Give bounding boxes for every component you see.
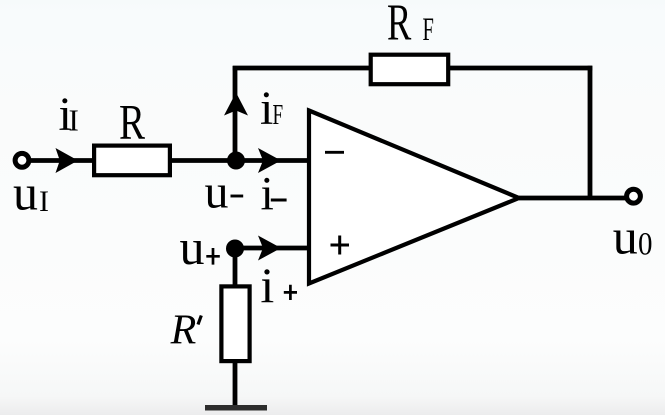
wire output xyxy=(519,196,627,201)
wire u+ to R' xyxy=(233,248,238,287)
current arrow i- xyxy=(258,148,281,173)
svg-text:I: I xyxy=(69,103,79,138)
op-amp plus sign xyxy=(331,236,350,255)
current arrow iI xyxy=(56,148,79,173)
wire feedback top-left xyxy=(233,66,369,71)
op-amp minus sign xyxy=(325,151,344,154)
svg-text:F: F xyxy=(273,99,284,131)
input terminal xyxy=(15,153,29,167)
wire plus input xyxy=(235,246,307,251)
wire R' to ground xyxy=(233,362,238,407)
output terminal xyxy=(627,189,641,203)
svg-text:i: i xyxy=(261,168,274,221)
svg-text:I: I xyxy=(39,185,49,218)
resistor R xyxy=(94,146,170,176)
ground xyxy=(205,405,267,411)
current arrow i+ xyxy=(258,236,281,261)
label R xyxy=(119,94,145,150)
resistor RF xyxy=(371,55,449,84)
svg-text:R: R xyxy=(170,308,197,354)
current arrow iF xyxy=(224,93,248,116)
wire output drop xyxy=(588,66,593,198)
svg-text:u: u xyxy=(180,219,205,275)
wire input xyxy=(30,158,94,163)
wire feedback top-right xyxy=(450,66,592,71)
resistor R' xyxy=(221,286,249,361)
svg-text:R: R xyxy=(119,94,145,150)
svg-text:u: u xyxy=(613,209,638,265)
svg-text:i: i xyxy=(260,257,274,313)
label RF xyxy=(387,0,411,51)
svg-text:R: R xyxy=(387,0,411,51)
svg-text:u: u xyxy=(205,166,229,219)
svg-text:u: u xyxy=(13,165,38,221)
node u+ xyxy=(226,240,244,258)
svg-text:F: F xyxy=(423,11,434,47)
svg-text:0: 0 xyxy=(638,225,653,262)
wire R to inverting input xyxy=(172,158,307,163)
op-amp U1 xyxy=(309,111,519,284)
svg-text:i: i xyxy=(260,82,273,135)
node u- xyxy=(227,152,245,170)
wire feedback vertical xyxy=(233,66,238,161)
